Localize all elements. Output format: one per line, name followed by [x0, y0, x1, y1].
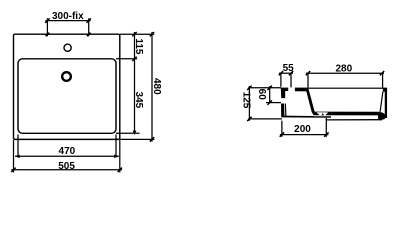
svg-text:55: 55: [283, 63, 295, 74]
svg-text:480: 480: [151, 78, 162, 95]
svg-text:300-fix: 300-fix: [52, 11, 84, 22]
svg-text:345: 345: [133, 92, 144, 109]
svg-text:200: 200: [294, 124, 311, 135]
svg-text:60: 60: [256, 89, 267, 101]
svg-text:115: 115: [133, 38, 144, 55]
svg-text:470: 470: [59, 146, 76, 157]
svg-text:280: 280: [335, 64, 352, 75]
svg-text:505: 505: [58, 161, 75, 172]
svg-text:125: 125: [241, 92, 252, 109]
